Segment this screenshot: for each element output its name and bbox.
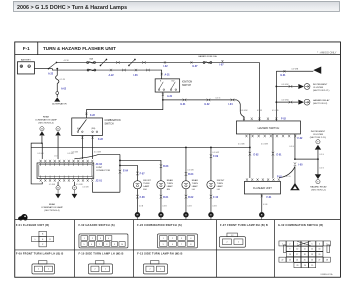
svg-text:R-04: R-04 xyxy=(188,173,194,176)
svg-text:HAZARD RELAY: HAZARD RELAY xyxy=(313,99,330,102)
svg-text:2: 2 xyxy=(226,242,227,244)
svg-text:G-02 COMBINATION SWITCH (B): G-02 COMBINATION SWITCH (B) xyxy=(278,223,323,227)
turn lamp L3 xyxy=(182,181,190,189)
svg-text:25: 25 xyxy=(304,260,306,262)
svg-text:F-07 FRONT TURN LAMP RH (B) B: F-07 FRONT TURN LAMP RH (B) B xyxy=(220,223,268,227)
svg-text:F-02: F-02 xyxy=(281,118,287,121)
svg-text:19: 19 xyxy=(311,254,313,256)
wire W1 down to hazard pin 2 xyxy=(258,62,260,116)
svg-text:0.5 G/B: 0.5 G/B xyxy=(67,153,74,155)
svg-text:0.5 G/B: 0.5 G/B xyxy=(187,170,194,172)
ignition switch SW1 xyxy=(155,79,180,92)
panel connector G-02 grid drawing xyxy=(279,241,286,246)
fuse F4 HAZARD FUSE 10A xyxy=(203,61,205,63)
wire instrument cluster down xyxy=(317,150,319,160)
svg-text:INSTRUMENT: INSTRUMENT xyxy=(313,84,328,86)
svg-text:HAZARD SWITCH: HAZARD SWITCH xyxy=(258,126,280,130)
svg-text:22: 22 xyxy=(282,260,284,262)
svg-text:0.5 G/B: 0.5 G/B xyxy=(37,153,44,155)
svg-text:LAMP: LAMP xyxy=(167,185,173,188)
svg-text:SWITCH: SWITCH xyxy=(104,123,113,125)
wire rear lamp 1 loop xyxy=(41,136,43,143)
flasher unit U1 xyxy=(244,181,280,194)
svg-text:F-01: F-01 xyxy=(266,196,272,199)
svg-text:0.5 G/W: 0.5 G/W xyxy=(261,144,268,146)
joint connector JC xyxy=(37,163,94,179)
svg-text:2: 2 xyxy=(289,243,290,245)
combination switch SW2 xyxy=(72,118,103,136)
connector triangle to hazard relay xyxy=(315,174,321,179)
svg-text:F-01: F-01 xyxy=(277,176,283,179)
connector R-01 below lamp L2 xyxy=(160,195,162,199)
wire hazard to flasher pin 1 xyxy=(249,147,251,178)
svg-text:28: 28 xyxy=(326,260,328,262)
svg-text:0.5 G/W: 0.5 G/W xyxy=(76,184,83,186)
wire lamp L4 to ground xyxy=(210,189,212,212)
svg-text:FRONT: FRONT xyxy=(143,180,151,182)
wire lamp distribution drop xyxy=(119,154,121,192)
connector on W1 at 143 xyxy=(142,61,146,63)
wire ignition to combination switch xyxy=(86,100,162,118)
svg-text:I-06: I-06 xyxy=(133,74,138,77)
panel connector F-10 drawing xyxy=(88,264,112,274)
connector E-02 flasher feed xyxy=(249,152,251,156)
svg-text:2: 2 xyxy=(172,238,173,240)
diagram outer frame xyxy=(15,42,341,277)
panel connector F-01 drawing xyxy=(39,231,46,236)
svg-text:F-1: F-1 xyxy=(23,46,30,51)
alternator connector triangle xyxy=(54,97,60,101)
wire battery to junction xyxy=(34,68,48,70)
svg-text:13: 13 xyxy=(319,249,321,251)
wire to hazard relay lower xyxy=(317,159,319,174)
svg-text:2006 > G 1.5 DOHC > Turn & Haz: 2006 > G 1.5 DOHC > Turn & Hazard Lamps xyxy=(17,5,127,11)
hazard switch SW3 xyxy=(236,121,300,134)
svg-text:3: 3 xyxy=(100,238,101,240)
svg-text:COMBINATION LAMP: COMBINATION LAMP xyxy=(41,206,63,209)
svg-text:7: 7 xyxy=(99,244,100,246)
svg-text:LAMP: LAMP xyxy=(143,185,149,188)
connector F-07 lamp L1 xyxy=(136,172,138,176)
connector on W2 at 147 xyxy=(146,69,150,71)
svg-text:0.5 G: 0.5 G xyxy=(319,154,324,156)
flasher unit top pins xyxy=(246,178,248,180)
svg-text:CONNECTOR: CONNECTOR xyxy=(96,170,110,172)
svg-text:CLUSTER: CLUSTER xyxy=(313,87,324,89)
svg-text:2: 2 xyxy=(94,269,95,271)
wire branch to interior harness triangle xyxy=(276,70,313,72)
svg-text:E-07: E-07 xyxy=(192,65,198,68)
circle M rear lamp 1 xyxy=(40,127,44,131)
svg-text:0.5 G: 0.5 G xyxy=(286,176,291,178)
svg-text:I-04: I-04 xyxy=(228,103,233,106)
svg-text:5: 5 xyxy=(312,243,313,245)
svg-text:9: 9 xyxy=(114,244,115,246)
panel connector F-13 drawing xyxy=(143,264,167,274)
connector pin E-07 on W1 xyxy=(190,61,192,63)
bracket wire to lamp L2 xyxy=(120,160,161,166)
hazard switch bottom pins xyxy=(245,135,247,137)
connector on W2 at 123 xyxy=(122,69,126,71)
bus wire turn lamp feed xyxy=(31,146,250,148)
svg-text:REAR: REAR xyxy=(49,203,55,206)
wire slant into flasher xyxy=(279,166,295,177)
svg-text:A-22: A-22 xyxy=(48,73,54,76)
panel connector G-02 bottom row xyxy=(294,263,301,268)
wire joint connector to rear lamp 4 xyxy=(73,182,75,186)
svg-text:1: 1 xyxy=(105,269,106,271)
svg-text:TURN: TURN xyxy=(192,183,198,185)
svg-text:0.5 W/B: 0.5 W/B xyxy=(291,69,298,71)
svg-text:JC-02: JC-02 xyxy=(95,163,102,166)
connector panel top border xyxy=(15,219,341,221)
wire feed lamp L2 xyxy=(160,166,162,180)
svg-text:1: 1 xyxy=(84,238,85,240)
svg-text:2: 2 xyxy=(92,238,93,240)
svg-text:FRONT: FRONT xyxy=(217,180,225,182)
svg-text:(SECTION 2-YL): (SECTION 2-YL) xyxy=(310,137,327,139)
hazard relay arrow symbol xyxy=(298,100,304,105)
wire rear lamp 1 to joint connector xyxy=(41,143,43,159)
connector triangle rear lamp 1 xyxy=(39,131,44,135)
wire rear lamp 2 to joint connector xyxy=(57,136,59,159)
svg-text:8: 8 xyxy=(190,244,191,246)
svg-text:IG2: IG2 xyxy=(171,81,174,83)
svg-text:2: 2 xyxy=(149,269,150,271)
svg-text:BATTERY: BATTERY xyxy=(21,59,31,62)
svg-text:COMBINATION: COMBINATION xyxy=(104,119,120,122)
svg-text:INSTRUMENT: INSTRUMENT xyxy=(311,131,326,133)
svg-text:11: 11 xyxy=(304,249,306,251)
panel connector F-09 drawing xyxy=(32,264,55,274)
wire W2 into ignition switch xyxy=(157,70,161,79)
connector triangle from instrument cluster xyxy=(315,145,321,150)
wire to etacs triangle xyxy=(294,166,296,183)
svg-text:HAZARD RELAY: HAZARD RELAY xyxy=(310,185,327,188)
svg-text:20: 20 xyxy=(319,254,321,256)
svg-text:F-22 COMBINATION SWITCH (S): F-22 COMBINATION SWITCH (S) xyxy=(137,223,182,227)
connector E-02 on ignition wire xyxy=(207,99,211,101)
ground G2 xyxy=(158,212,163,217)
svg-text:A-22: A-22 xyxy=(108,74,114,77)
svg-text:12: 12 xyxy=(311,249,313,251)
svg-text:F-09: F-09 xyxy=(213,155,219,158)
branch to hazard relay upper xyxy=(275,101,277,103)
svg-text:R-01: R-01 xyxy=(163,196,169,199)
svg-text:RH: RH xyxy=(143,189,147,191)
wire feed lamp L4 xyxy=(210,147,212,180)
svg-text:A-31: A-31 xyxy=(167,95,173,98)
connector triangle rear lamp 2 xyxy=(55,131,60,135)
svg-text:FLASHER UNIT: FLASHER UNIT xyxy=(253,186,272,190)
wire jog to hazard pin 1 xyxy=(236,100,244,117)
ground G3 xyxy=(183,212,188,217)
svg-text:(RH): (RH) xyxy=(91,128,95,130)
svg-text:E-02: E-02 xyxy=(204,103,210,106)
connector E-01 on ignition wire xyxy=(183,99,187,101)
connector E-04 lamp feed xyxy=(119,170,121,174)
svg-text:(SECTION I-2): (SECTION I-2) xyxy=(311,189,326,191)
svg-text:JOINT: JOINT xyxy=(96,167,103,169)
connector pin I-02 on W1 xyxy=(164,61,166,63)
svg-text:LH: LH xyxy=(217,189,220,191)
svg-text:LAMP: LAMP xyxy=(192,185,198,188)
svg-text:0.5 G/B: 0.5 G/B xyxy=(49,184,56,186)
wire hazard to flasher pin 2 xyxy=(272,147,274,178)
svg-text:F-22: F-22 xyxy=(90,114,96,117)
svg-text:SWITCH: SWITCH xyxy=(182,85,191,87)
svg-text:* : AMIGO ONLY: * : AMIGO ONLY xyxy=(317,50,337,54)
svg-text:0.5 G/W: 0.5 G/W xyxy=(240,110,247,112)
svg-text:REAR: REAR xyxy=(43,116,49,119)
svg-text:L: L xyxy=(35,239,36,241)
svg-text:F-02: F-02 xyxy=(297,137,303,140)
svg-text:6: 6 xyxy=(91,244,92,246)
connector I-04 on ignition wire xyxy=(231,99,235,101)
svg-text:25: 25 xyxy=(311,265,313,267)
fuse F5 30A xyxy=(87,69,89,71)
svg-text:5: 5 xyxy=(84,244,85,246)
wire alternator drop xyxy=(56,69,58,76)
branch to instrument cluster xyxy=(275,86,277,88)
ground G5 xyxy=(259,212,264,217)
svg-text:27: 27 xyxy=(319,260,321,262)
wire lamp L2 to ground xyxy=(160,189,162,212)
connector pin I-06 on W2 xyxy=(135,69,137,71)
panel connector F-07 drawing xyxy=(219,237,245,248)
svg-text:3: 3 xyxy=(181,238,182,240)
svg-text:F-02 HAZARD SWITCH (S): F-02 HAZARD SWITCH (S) xyxy=(78,223,114,227)
svg-text:R-02: R-02 xyxy=(188,196,194,199)
svg-text:4.0 W: 4.0 W xyxy=(63,60,68,62)
connector R-03 lamp L2 xyxy=(160,164,162,168)
svg-text:RH: RH xyxy=(167,189,171,191)
svg-text:0.5 G/W: 0.5 G/W xyxy=(212,152,219,154)
fusible link FL1 xyxy=(48,62,56,68)
svg-text:0.5 G: 0.5 G xyxy=(54,156,59,158)
panel connector F-02 drawing xyxy=(79,234,128,248)
svg-text:18: 18 xyxy=(304,254,306,256)
connector triangle to body harness xyxy=(313,66,321,73)
hazard switch bottom wires xyxy=(249,134,251,147)
svg-text:9: 9 xyxy=(289,249,290,251)
svg-text:I-02: I-02 xyxy=(163,65,168,68)
ground G4 xyxy=(208,212,213,217)
svg-text:HAZARD FUSE 10A: HAZARD FUSE 10A xyxy=(198,55,217,58)
fusible coil to alternator xyxy=(56,75,59,83)
svg-text:KM8B-021A: KM8B-021A xyxy=(321,273,333,276)
connector R-04 lamp L3 xyxy=(185,172,187,176)
wire W1 main B+ feed xyxy=(56,61,259,63)
svg-text:TURN: TURN xyxy=(217,183,223,185)
wire lamp L1 to ground xyxy=(136,189,138,212)
svg-text:REAR: REAR xyxy=(167,179,173,182)
svg-text:F-09 FRONT TURN LAMP LH (B) B: F-09 FRONT TURN LAMP LH (B) B xyxy=(16,251,64,255)
connector E-01 flasher feed xyxy=(272,152,274,156)
title cell divider xyxy=(37,42,39,55)
wire joint connector to rear lamp 3 xyxy=(57,182,59,186)
svg-text:E-02: E-02 xyxy=(253,153,259,156)
svg-text:JC-01: JC-01 xyxy=(95,180,102,183)
circle M rear lamp 2 xyxy=(56,127,60,131)
wire feed lamp L3 xyxy=(185,147,187,180)
svg-text:(SECTION 2-YL): (SECTION 2-YL) xyxy=(313,90,330,92)
svg-text:1 2: 1 2 xyxy=(231,235,233,237)
svg-text:F-10: F-10 xyxy=(213,196,219,199)
connector R-02 below lamp L3 xyxy=(185,195,187,199)
svg-text:0.5 G: 0.5 G xyxy=(289,146,294,148)
svg-text:(SECTION B-4): (SECTION B-4) xyxy=(38,123,53,125)
flasher unit bottom pin xyxy=(261,194,263,212)
connector panel column dividers xyxy=(73,220,75,278)
svg-text:10: 10 xyxy=(121,244,123,246)
connector F-10 below lamp L4 xyxy=(210,195,212,199)
svg-text:5: 5 xyxy=(163,244,164,246)
svg-text:24: 24 xyxy=(296,260,298,262)
circle M rear lamp 3 xyxy=(56,186,60,190)
svg-text:TURN: TURN xyxy=(143,183,149,185)
svg-text:1: 1 xyxy=(160,269,161,271)
svg-text:(SECTION B-4): (SECTION B-4) xyxy=(44,210,59,212)
circle F instrument cluster xyxy=(316,140,320,144)
svg-text:7: 7 xyxy=(181,244,182,246)
svg-text:ALTERNATOR: ALTERNATOR xyxy=(52,103,67,106)
svg-text:TURN: TURN xyxy=(167,183,173,185)
connector pin A-22 on W2 xyxy=(110,69,112,71)
svg-text:TURN & HAZARD FLASHER UNIT: TURN & HAZARD FLASHER UNIT xyxy=(43,46,116,51)
alternator terminal circle xyxy=(56,92,59,95)
svg-text:A-31: A-31 xyxy=(164,74,170,77)
fuse F1 30A xyxy=(87,61,89,63)
svg-text:F-22: F-22 xyxy=(98,138,104,141)
svg-text:0.5 G/W: 0.5 G/W xyxy=(94,152,101,154)
svg-text:0.5 G/W: 0.5 G/W xyxy=(281,84,288,86)
svg-text:6: 6 xyxy=(172,244,173,246)
panel connector F-22 drawing xyxy=(157,234,197,248)
svg-text:R-03: R-03 xyxy=(163,165,169,168)
svg-text:I-05: I-05 xyxy=(298,164,303,167)
svg-text:0.5 G/B: 0.5 G/B xyxy=(272,110,279,112)
svg-text:CLUSTER: CLUSTER xyxy=(313,134,324,136)
bracket wire to lamp L1 xyxy=(120,165,138,171)
joint connector top pins xyxy=(40,160,42,162)
svg-text:0.5 W: 0.5 W xyxy=(60,79,65,81)
svg-text:(SECTION I-2): (SECTION I-2) xyxy=(313,103,328,105)
svg-text:0.5 G/B: 0.5 G/B xyxy=(238,144,245,146)
svg-text:COMBINATION LAMP: COMBINATION LAMP xyxy=(35,119,57,122)
svg-text:23: 23 xyxy=(297,265,299,267)
svg-text:LH: LH xyxy=(192,189,195,191)
turn lamp L2 xyxy=(157,181,165,189)
wire cross link xyxy=(295,158,318,160)
connector F-09 lamp L4 xyxy=(210,154,212,158)
svg-text:1: 1 xyxy=(163,238,164,240)
connector pin I-07 on W1 xyxy=(221,60,223,62)
connector F-08 below lamp L1 xyxy=(136,195,138,199)
wire feed lamp L1 xyxy=(136,171,138,180)
connector triangle rear lamp 3 xyxy=(55,194,61,199)
svg-text:16: 16 xyxy=(289,254,291,256)
svg-text:17: 17 xyxy=(296,254,298,256)
svg-text:2: 2 xyxy=(38,269,39,271)
svg-text:F-08: F-08 xyxy=(140,196,146,199)
connector panel row divider xyxy=(15,249,275,251)
combination switch bottom pins xyxy=(81,135,83,159)
ignition switch bottom pin xyxy=(162,92,164,100)
svg-text:I-07: I-07 xyxy=(219,64,224,67)
svg-text:23: 23 xyxy=(289,260,291,262)
turn lamp L4 xyxy=(207,181,215,189)
svg-text:1: 1 xyxy=(238,242,239,244)
svg-text:F-07: F-07 xyxy=(140,172,146,175)
svg-text:10: 10 xyxy=(296,249,298,251)
warning ground triangle xyxy=(290,183,300,190)
fusible link FL4 xyxy=(129,59,135,65)
connector triangle rear lamp 4 xyxy=(72,194,78,199)
hazard switch top pins xyxy=(243,118,245,120)
svg-text:26: 26 xyxy=(311,260,313,262)
node main junction xyxy=(56,68,58,70)
wire distribution to joint connector xyxy=(93,182,120,192)
svg-text:F-10 SIDE TURN LAMP LH (W) B: F-10 SIDE TURN LAMP LH (W) B xyxy=(78,251,123,255)
instrument cluster arrow symbol xyxy=(298,84,304,89)
car position icon xyxy=(18,214,28,219)
wire body harness feed to hazard pin 3 xyxy=(275,71,277,117)
circle M rear lamp 4 xyxy=(72,186,76,190)
connector I-05 xyxy=(294,162,296,166)
svg-text:F-13 SIDE TURN LAMP RH (W) B: F-13 SIDE TURN LAMP RH (W) B xyxy=(137,251,182,255)
svg-text:0.5 G: 0.5 G xyxy=(319,167,324,169)
svg-text:E-01: E-01 xyxy=(276,153,282,156)
svg-text:E-04: E-04 xyxy=(123,169,129,172)
svg-text:E-01: E-01 xyxy=(280,74,286,77)
svg-text:REAR: REAR xyxy=(192,179,198,182)
svg-text:E-01: E-01 xyxy=(180,103,186,106)
ground G1 xyxy=(135,212,140,217)
svg-text:A-02: A-02 xyxy=(61,87,67,90)
svg-text:4: 4 xyxy=(190,238,191,240)
svg-text:0.5 G/W: 0.5 G/W xyxy=(281,100,288,102)
svg-text:F-01 FLASHER UNIT (B): F-01 FLASHER UNIT (B) xyxy=(16,223,49,227)
fusible link FL2 xyxy=(100,59,106,65)
circle F hazard relay xyxy=(316,180,320,184)
svg-text:(LH): (LH) xyxy=(77,128,81,130)
svg-text:0.5 G/B: 0.5 G/B xyxy=(82,187,89,189)
turn lamp L1 xyxy=(133,181,141,189)
bus curve from joint connector xyxy=(74,154,120,158)
svg-text:0.5 W: 0.5 W xyxy=(257,110,262,112)
wire lamp L3 to ground xyxy=(185,189,187,212)
svg-text:4: 4 xyxy=(108,238,109,240)
title row separator xyxy=(15,54,341,56)
svg-text:IGNITION: IGNITION xyxy=(182,82,193,84)
svg-text:3: 3 xyxy=(297,243,298,245)
svg-text:24: 24 xyxy=(304,265,306,267)
svg-text:0.5 G: 0.5 G xyxy=(215,98,220,100)
svg-text:LAMP: LAMP xyxy=(217,185,223,188)
wire W2 ignition feed xyxy=(48,68,52,70)
svg-text:8: 8 xyxy=(106,244,107,246)
svg-text:1: 1 xyxy=(282,243,283,245)
connector on W1 at 117 xyxy=(116,61,120,63)
wire ignition to hazard switch xyxy=(163,99,237,101)
joint connector bottom pins xyxy=(40,179,42,181)
svg-text:6: 6 xyxy=(319,243,320,245)
svg-text:1: 1 xyxy=(48,269,49,271)
